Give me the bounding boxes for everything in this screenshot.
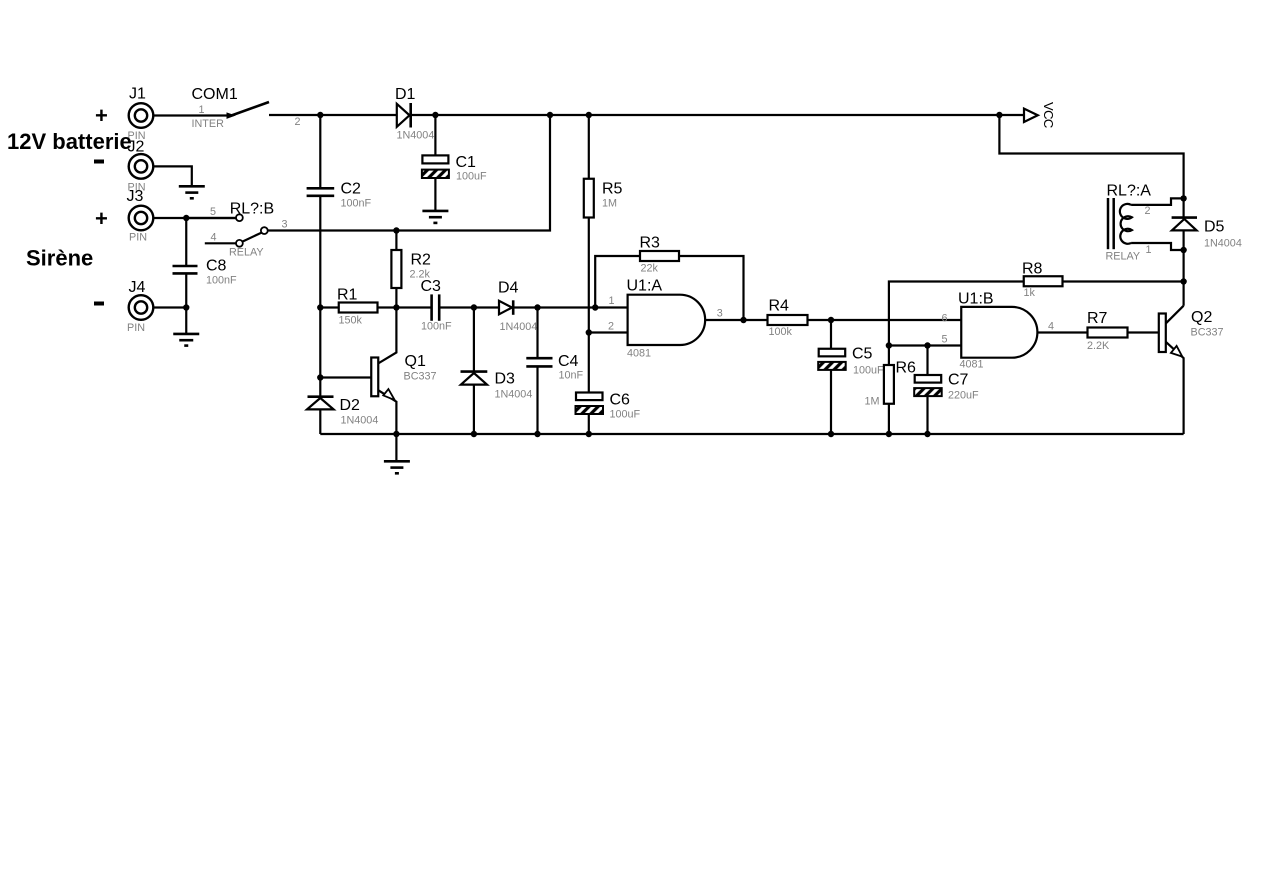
svg-text:C3: C3 [421, 278, 442, 295]
wire R5 top [588, 115, 590, 179]
wire U1:B output [1038, 331, 1088, 333]
wire R6 bottom [888, 404, 890, 434]
svg-text:100nF: 100nF [421, 321, 452, 333]
node C7 top [924, 342, 930, 348]
svg-text:PIN: PIN [127, 322, 145, 334]
relay coil RL?:A winding [1120, 204, 1132, 244]
node C4 top [534, 304, 540, 310]
node C1 top [432, 112, 438, 118]
node R3 loop left [592, 304, 598, 310]
wire C7 top [926, 346, 928, 376]
capacitor C4 [526, 358, 552, 366]
svg-text:D5: D5 [1204, 219, 1225, 236]
svg-text:1: 1 [199, 104, 205, 116]
wire C1 to ground [434, 178, 436, 210]
node pin2 [586, 329, 592, 335]
node R2 top [393, 227, 399, 233]
resistor R8 [1024, 276, 1063, 286]
wire pin 5 row [889, 344, 961, 346]
node J4/C8 [183, 304, 189, 310]
top rail wire after D1 [411, 114, 1000, 116]
svg-text:D2: D2 [340, 397, 361, 414]
node R6 bottom [886, 431, 892, 437]
svg-text:150k: 150k [339, 315, 363, 327]
svg-text:R8: R8 [1022, 261, 1043, 278]
svg-text:C6: C6 [610, 392, 631, 409]
diode D5 [1172, 218, 1197, 231]
wire C1 top [434, 115, 436, 155]
connector J2 [129, 154, 154, 179]
svg-text:220uF: 220uF [948, 390, 979, 402]
svg-text:R7: R7 [1087, 310, 1108, 327]
node relay pin1 [1180, 247, 1186, 253]
transistor Q1 [371, 308, 396, 435]
wire relay/D5 vertical [1182, 198, 1184, 305]
resistor R3 [640, 251, 679, 261]
wire C4 bottom [536, 366, 538, 434]
ground at C1 [422, 211, 448, 223]
wire J2 to ground [153, 166, 192, 185]
capacitor C6 (electrolytic) [576, 393, 604, 415]
svg-text:100uF: 100uF [853, 365, 884, 377]
node C5 bottom [828, 431, 834, 437]
R8 wire right [1063, 280, 1184, 282]
top rail wire [269, 114, 397, 116]
resistor R5 [584, 179, 594, 218]
relay contact RL?:B pin 5 circle [236, 214, 243, 221]
svg-text:5: 5 [210, 206, 216, 218]
svg-text:R3: R3 [640, 235, 661, 252]
relay coil RL?:A core [1108, 198, 1114, 249]
node relay pin2 [1180, 195, 1186, 201]
svg-text:100nF: 100nF [341, 198, 372, 210]
svg-text:Sirène: Sirène [26, 246, 93, 271]
wire D3 top [473, 308, 475, 371]
svg-text:C4: C4 [558, 353, 579, 370]
svg-text:1N4004: 1N4004 [1204, 238, 1242, 250]
ground at J4 [173, 334, 199, 346]
switch COM1 pivot wedge [227, 112, 236, 119]
node R1 left [317, 304, 323, 310]
node C5 top [828, 317, 834, 323]
svg-text:R2: R2 [411, 252, 432, 269]
svg-text:4: 4 [1048, 321, 1054, 333]
svg-text:RELAY: RELAY [229, 247, 264, 259]
wire J4 to ground [185, 308, 187, 334]
svg-text:D1: D1 [395, 86, 416, 103]
wire R4 to U1:B pin 6 [808, 319, 962, 321]
svg-text:4081: 4081 [627, 348, 651, 360]
svg-text:1M: 1M [602, 198, 617, 210]
node VCC branch [996, 112, 1002, 118]
wire U1:A output [705, 319, 768, 321]
node J3/C8 [183, 215, 189, 221]
svg-text:2.2K: 2.2K [1087, 340, 1110, 352]
relay coil wire pin 2 [1131, 198, 1184, 205]
svg-text:1: 1 [609, 295, 615, 307]
svg-text:J4: J4 [129, 279, 146, 296]
node R3 loop right [740, 317, 746, 323]
row wire C3-pin1 [439, 306, 627, 308]
capacitor C7 (electrolytic) [914, 375, 942, 396]
wire C2 vertical bottom to D2 [319, 196, 321, 396]
label - sirene [94, 302, 104, 306]
svg-text:100uF: 100uF [456, 171, 487, 183]
capacitor C1 (electrolytic) [422, 155, 449, 178]
svg-text:PIN: PIN [129, 232, 147, 244]
svg-text:1N4004: 1N4004 [397, 130, 435, 142]
resistor R6 [884, 365, 894, 404]
node R1 right [393, 304, 399, 310]
node Q1 base / D2 [317, 374, 323, 380]
wire J1 to switch [153, 114, 231, 116]
svg-text:10nF: 10nF [559, 370, 584, 382]
wire C8 bottom [185, 273, 187, 307]
svg-text:U1:B: U1:B [958, 291, 994, 308]
node R8 right [1180, 278, 1186, 284]
gate U1:B [961, 307, 1037, 358]
node R5 top [586, 112, 592, 118]
wire R2 bottom [395, 288, 397, 308]
node C4 bottom [534, 431, 540, 437]
transistor Q2 [1159, 306, 1184, 434]
wire J4 [153, 306, 186, 308]
svg-text:VCC: VCC [1041, 102, 1056, 128]
resistor R1 [339, 303, 378, 313]
wire C5 top [830, 320, 832, 349]
svg-text:INTER: INTER [192, 118, 225, 130]
gate U1:A [628, 295, 706, 345]
svg-text:2: 2 [1145, 205, 1151, 217]
svg-text:BC337: BC337 [1191, 327, 1224, 339]
relay coil wire pin 1 [1131, 243, 1184, 250]
svg-text:R1: R1 [337, 287, 358, 304]
svg-text:C7: C7 [948, 372, 969, 389]
svg-text:RL?:A: RL?:A [1107, 183, 1152, 200]
svg-text:1: 1 [1146, 244, 1152, 256]
wire C4 top [536, 308, 538, 358]
R3 loop left wire [595, 256, 640, 308]
capacitor C2 [307, 188, 335, 196]
node pin5 left [886, 342, 892, 348]
svg-text:R5: R5 [602, 181, 623, 198]
VCC arrow [1024, 109, 1038, 122]
relay contact RL?:B pin 4 circle [236, 240, 243, 247]
relay contact RL?:B pin 5 wire [186, 217, 236, 219]
svg-text:J3: J3 [127, 188, 144, 205]
wire R2 top [395, 231, 397, 251]
svg-text:+: + [95, 206, 108, 231]
svg-text:U1:A: U1:A [627, 278, 663, 295]
svg-text:R4: R4 [769, 298, 790, 315]
diode D3 [461, 372, 488, 434]
connector J1 [129, 103, 154, 128]
node D3 bottom [471, 431, 477, 437]
bottom rail wire [320, 433, 1183, 435]
svg-text:C2: C2 [341, 181, 362, 198]
ground main [384, 461, 410, 473]
label - battery [94, 160, 104, 164]
svg-text:1N4004: 1N4004 [341, 415, 379, 427]
svg-text:4: 4 [211, 232, 217, 244]
connector J3 [129, 206, 154, 231]
wire J3 to relay contact [153, 217, 236, 219]
relay contact RL?:B blade [243, 233, 262, 242]
resistor R4 [768, 315, 808, 325]
relay contact RL?:B pin 3 circle [261, 227, 268, 234]
svg-text:2: 2 [608, 321, 614, 333]
svg-text:R6: R6 [896, 360, 917, 377]
resistor R7 [1088, 328, 1128, 338]
svg-text:100nF: 100nF [206, 275, 237, 287]
wire C8 top [185, 218, 187, 265]
diode D4 [499, 300, 513, 315]
svg-text:3: 3 [717, 308, 723, 320]
node C2 top [317, 112, 323, 118]
svg-text:3: 3 [282, 219, 288, 231]
connector J4 [129, 295, 154, 320]
svg-text:1N4004: 1N4004 [495, 389, 533, 401]
svg-text:22k: 22k [641, 263, 659, 275]
svg-text:+: + [95, 103, 108, 128]
svg-text:6: 6 [942, 313, 948, 325]
ground at J2 [179, 186, 205, 198]
resistor R2 [391, 250, 401, 288]
svg-text:Q1: Q1 [405, 353, 426, 370]
capacitor C8 [173, 266, 198, 273]
svg-text:Q2: Q2 [1191, 309, 1212, 326]
wire VCC branch to relay [999, 115, 1183, 198]
wire VCC stub [999, 114, 1024, 116]
row wire R1-C3 [320, 306, 431, 308]
wire R6 top [888, 346, 890, 366]
diode D2 [307, 397, 334, 434]
svg-text:12V batterie: 12V batterie [7, 129, 132, 154]
node C6 bottom [586, 431, 592, 437]
svg-text:4081: 4081 [960, 359, 984, 371]
diode D1 [397, 103, 411, 128]
wire R7 to Q2 base [1128, 331, 1159, 333]
wire C2 vertical top [319, 115, 321, 188]
svg-text:RELAY: RELAY [1106, 251, 1141, 263]
net 3 wire [268, 115, 550, 231]
svg-text:BC337: BC337 [404, 371, 437, 383]
wire pin 2 [589, 331, 628, 333]
svg-text:C1: C1 [456, 154, 477, 171]
svg-text:RL?:B: RL?:B [230, 201, 274, 218]
node C7 bottom [924, 431, 930, 437]
svg-text:1k: 1k [1024, 287, 1036, 299]
svg-text:D4: D4 [498, 280, 519, 297]
svg-text:1M: 1M [865, 396, 880, 408]
switch COM1 blade [230, 102, 269, 116]
wire main ground stem [395, 434, 397, 461]
node Q1 emitter/ground [393, 431, 399, 437]
wire C7 bottom [926, 396, 928, 434]
svg-text:COM1: COM1 [192, 86, 238, 103]
capacitor C3 [432, 294, 440, 320]
svg-text:1N4004: 1N4004 [500, 321, 538, 333]
capacitor C5 (electrolytic) [818, 349, 846, 370]
wire C5 bottom [830, 370, 832, 434]
svg-text:C8: C8 [206, 258, 227, 275]
wire R5 bottom to pin2 node [588, 218, 590, 393]
svg-text:C5: C5 [852, 346, 873, 363]
relay contact RL?:B pin 4 wire [205, 242, 236, 244]
svg-text:2: 2 [295, 116, 301, 128]
transistor Q1 base wire [320, 376, 371, 378]
node net3 riser [547, 112, 553, 118]
svg-text:J2: J2 [128, 139, 145, 156]
svg-text:D3: D3 [495, 371, 516, 388]
R3 loop right wire [679, 256, 744, 320]
svg-text:J1: J1 [129, 86, 146, 103]
wire C6 bottom [588, 414, 590, 434]
R8 loop wire left [889, 282, 1024, 346]
svg-text:100k: 100k [769, 326, 793, 338]
svg-text:5: 5 [942, 334, 948, 346]
node D3 top [471, 304, 477, 310]
svg-text:100uF: 100uF [610, 409, 641, 421]
